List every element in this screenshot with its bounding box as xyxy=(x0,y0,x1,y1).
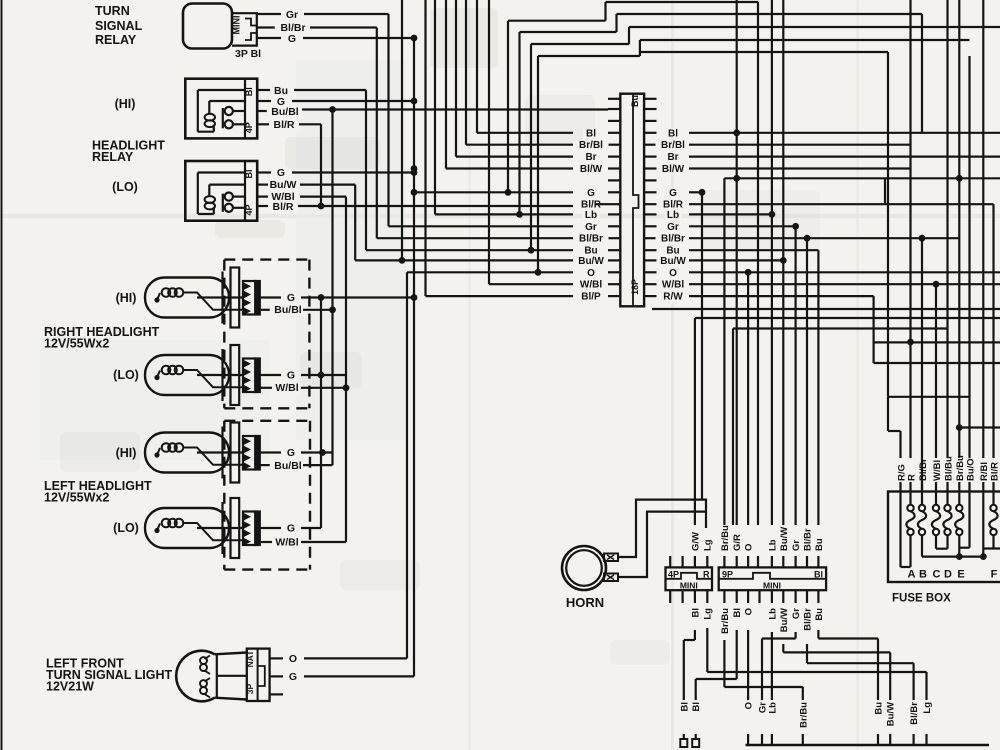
wire Bl/R from LO relay xyxy=(257,205,268,207)
vertical from top to Bu/W row xyxy=(401,0,403,260)
fuse R/Bl wire xyxy=(982,492,984,557)
wire W/Bl right row xyxy=(689,283,1000,285)
wire Br to 18P xyxy=(455,0,457,157)
18P pin row 2 xyxy=(608,108,620,110)
18P pin row 6 Br xyxy=(608,156,620,158)
jog wire 1 upper middle xyxy=(507,21,509,193)
wire Bl/Br vertical xyxy=(376,28,378,239)
svg-text:Gr: Gr xyxy=(585,222,597,233)
wire Bl/Br row to 18P xyxy=(377,237,573,239)
vertical link from jog3 xyxy=(887,52,889,397)
svg-text:SIGNAL: SIGNAL xyxy=(95,19,143,33)
wire Bu right row xyxy=(689,249,818,251)
page left edge line xyxy=(1,0,3,750)
svg-text:G: G xyxy=(277,167,285,179)
fuse xyxy=(992,492,994,506)
wire W/Bl left headlight LO xyxy=(260,541,275,543)
Bu/Bl bus headlights xyxy=(331,110,333,466)
wire G from turn signal relay xyxy=(257,37,281,39)
svg-text:R/W: R/W xyxy=(663,292,683,303)
wire G right headlight LO xyxy=(260,374,281,376)
svg-text:Bl: Bl xyxy=(244,87,254,96)
wire O 9P vertical xyxy=(747,272,749,525)
svg-text:Br: Br xyxy=(585,152,596,163)
junction Bl/W crossing xyxy=(411,165,418,172)
wire G right vertical xyxy=(701,192,703,499)
svg-text:Bl/Bu: Bl/Bu xyxy=(943,456,954,481)
wire G from HI relay xyxy=(257,100,271,102)
svg-text:Bl/Br: Bl/Br xyxy=(918,458,929,481)
wire G from turn signal light xyxy=(270,675,283,677)
svg-text:G: G xyxy=(587,188,595,199)
svg-text:Bu: Bu xyxy=(874,702,885,715)
junction G headlights row xyxy=(411,294,418,301)
wire fuse R/Bl upper xyxy=(982,0,984,458)
wire Gr row to 18P xyxy=(389,225,574,227)
right headlight HI bulb xyxy=(145,278,229,318)
svg-text:Bl: Bl xyxy=(244,169,254,178)
junction Bu/W right xyxy=(780,257,787,264)
wire G/R 9P vertical xyxy=(736,0,738,525)
vertical 733 down from h326 xyxy=(732,329,734,526)
wire link row8 to fuse Bl/R xyxy=(724,177,1000,179)
svg-text:Br/Bu: Br/Bu xyxy=(798,702,809,728)
wire Bl/Br 9P vertical xyxy=(806,238,808,525)
svg-text:RELAY: RELAY xyxy=(95,33,137,47)
O net vertical xyxy=(406,272,408,658)
wire Bu/W from LO relay xyxy=(257,184,268,186)
bottom page line xyxy=(746,744,990,747)
svg-text:Bu: Bu xyxy=(814,538,825,551)
svg-text:3P: 3P xyxy=(245,683,255,694)
wire fuse R/G upper xyxy=(899,431,901,458)
junction Bu/W vertical xyxy=(399,257,406,264)
svg-text:(LO): (LO) xyxy=(113,368,139,382)
wire Bu/Bl left headlight HI xyxy=(260,464,275,466)
wire Bl 4P to bottom xyxy=(694,630,696,640)
wire Bu/W row to 18P xyxy=(355,259,573,261)
wire h342 right xyxy=(874,341,1000,343)
svg-text:O: O xyxy=(744,702,755,709)
svg-text:4P: 4P xyxy=(244,122,254,133)
wire Bl right row xyxy=(689,132,1000,134)
junction G turn relay xyxy=(411,35,418,42)
wire h431 link to fuse R/G xyxy=(888,430,901,432)
svg-text:Bl: Bl xyxy=(690,608,701,618)
wire Br/Bu 9P vertical xyxy=(723,178,725,525)
junction G right HI xyxy=(318,294,325,301)
svg-text:Bl/Br: Bl/Br xyxy=(909,702,920,725)
svg-text:Bl/W: Bl/W xyxy=(662,164,685,175)
18P pin row 12 Gr xyxy=(608,225,620,227)
svg-text:Bl: Bl xyxy=(814,570,823,580)
svg-text:Gr: Gr xyxy=(791,540,802,551)
svg-text:Bu/W: Bu/W xyxy=(886,702,897,726)
wire G row to 18P xyxy=(414,191,573,193)
svg-text:Bl/Br: Bl/Br xyxy=(661,234,685,245)
18P pin row 7 Bl/W xyxy=(608,167,620,169)
wire fuse Br/Bu upper xyxy=(958,0,960,458)
wire Bu/W right row xyxy=(689,259,783,261)
svg-text:W/Bl: W/Bl xyxy=(275,382,298,394)
svg-text:Lb: Lb xyxy=(585,210,597,221)
svg-text:Bl/Br: Bl/Br xyxy=(803,608,814,631)
svg-text:Bl/R: Bl/R xyxy=(274,119,295,131)
wire G from LO relay xyxy=(257,171,271,173)
svg-text:9P: 9P xyxy=(722,570,733,580)
junction Lb right xyxy=(769,211,776,218)
svg-text:Bl/Br: Bl/Br xyxy=(579,234,603,245)
18P pin row 17 W/Bl xyxy=(608,283,620,285)
wire h308 right xyxy=(652,308,1000,310)
jog wire 2 upper middle xyxy=(518,32,520,214)
turn signal relay box xyxy=(183,4,232,49)
wire Bu/W vertical LO relay xyxy=(354,185,356,261)
jog wire 4 upper middle xyxy=(537,56,539,272)
wire G right row xyxy=(689,191,702,193)
wire Gr to bottom xyxy=(794,632,796,639)
right headlight LO bulb xyxy=(145,355,229,395)
svg-text:Bl: Bl xyxy=(691,702,702,712)
svg-text:Gr: Gr xyxy=(791,608,802,619)
svg-text:RELAY: RELAY xyxy=(92,150,134,164)
svg-text:W/Bl: W/Bl xyxy=(932,460,943,481)
svg-text:18P: 18P xyxy=(630,279,640,295)
svg-text:MINI: MINI xyxy=(232,16,242,35)
svg-text:Bu/W: Bu/W xyxy=(270,179,297,191)
wire Bu 9P vertical xyxy=(817,250,819,525)
svg-text:A: A xyxy=(908,569,916,581)
svg-text:Bu/W: Bu/W xyxy=(779,527,790,551)
fuse box body xyxy=(888,492,1000,583)
svg-text:G/R: G/R xyxy=(732,534,743,551)
wire W/Bl to 18P xyxy=(488,0,490,284)
svg-text:Bu/W: Bu/W xyxy=(578,256,604,267)
18P pin row 16 O xyxy=(608,271,620,273)
18P pin row 18 Bl/P xyxy=(608,295,620,297)
svg-text:MINI: MINI xyxy=(680,580,698,590)
junction Lb jog xyxy=(516,211,523,218)
junction Bl/R xyxy=(318,203,325,210)
fuse Bu/O link xyxy=(968,492,970,548)
18P pin row 15 Bu/W xyxy=(608,259,620,261)
wire W/Bl from LO relay xyxy=(257,196,268,198)
svg-text:(HI): (HI) xyxy=(116,291,137,305)
4P MINI pins xyxy=(669,556,671,567)
svg-text:MINI: MINI xyxy=(763,580,781,590)
svg-text:G/W: G/W xyxy=(690,532,701,551)
svg-text:O: O xyxy=(587,268,595,279)
wire Bu row to 18P xyxy=(366,249,573,251)
Bl/R jog up xyxy=(884,178,886,204)
wire Bu vertical HI relay xyxy=(365,90,367,250)
connector 4P MINI xyxy=(666,567,713,590)
svg-text:4P: 4P xyxy=(244,204,254,215)
scan streak artifacts xyxy=(0,214,1000,218)
junction G jog xyxy=(505,189,512,196)
wire Br/Bl right row xyxy=(689,144,911,146)
svg-text:Gr: Gr xyxy=(286,9,298,21)
junction h178 x G/R xyxy=(733,175,740,182)
svg-text:O: O xyxy=(744,608,755,615)
svg-text:O: O xyxy=(744,544,755,551)
svg-text:Lg: Lg xyxy=(703,608,714,620)
svg-text:(LO): (LO) xyxy=(113,521,139,535)
fuse xyxy=(958,492,960,506)
wire Lb 9P vertical xyxy=(771,0,773,525)
svg-text:R: R xyxy=(906,474,917,481)
G net main vertical xyxy=(413,38,415,676)
wire fuse R upper xyxy=(909,0,911,458)
terminal square xyxy=(680,739,687,747)
junction G 18P row xyxy=(411,189,418,196)
junction h178 x Br/Bu fuse xyxy=(956,175,963,182)
svg-text:TURN: TURN xyxy=(95,4,130,18)
svg-text:Bl/P: Bl/P xyxy=(581,292,601,303)
wire Bl/R from HI relay xyxy=(257,123,270,125)
jog wire 3 upper middle xyxy=(530,44,532,250)
svg-text:Br/Bl: Br/Bl xyxy=(579,140,603,151)
svg-text:G: G xyxy=(669,188,677,199)
wire h363 to edge xyxy=(874,362,1000,364)
connector 18P body xyxy=(620,94,644,307)
svg-text:Lg: Lg xyxy=(703,539,714,551)
junction Bu jog xyxy=(528,247,535,254)
svg-text:Bl/R: Bl/R xyxy=(989,462,1000,481)
svg-text:(HI): (HI) xyxy=(115,97,136,111)
wire Bu/W 9P vertical xyxy=(782,0,784,525)
wire Bu to bottom xyxy=(817,630,819,639)
wire h52 link xyxy=(640,51,888,53)
svg-text:Br: Br xyxy=(667,152,678,163)
svg-text:Bl/Br: Bl/Br xyxy=(803,528,814,551)
G bus headlights xyxy=(320,298,322,529)
svg-text:Bu/Bl: Bu/Bl xyxy=(274,304,301,316)
wire fuse Bl/Bu upper xyxy=(946,0,948,458)
wire h326 right xyxy=(733,327,948,329)
fuse C D bottom link xyxy=(935,535,937,549)
svg-text:G: G xyxy=(289,671,297,683)
horn wire 1 xyxy=(618,500,706,557)
fuse A bottom link xyxy=(899,492,901,568)
wire W/Bl right headlight LO xyxy=(260,387,275,389)
svg-text:Bl: Bl xyxy=(668,128,678,139)
turn signal 3P NAT connector xyxy=(247,649,270,701)
headlight relay LO box xyxy=(185,161,257,221)
18P pin row 9 G xyxy=(608,191,620,193)
svg-text:G: G xyxy=(287,523,295,535)
wire G/W vertical xyxy=(694,318,696,525)
terminal square xyxy=(692,739,699,747)
wire Bu/Bl right headlight HI xyxy=(260,309,275,311)
9P MINI pins xyxy=(723,556,725,567)
svg-text:3P Bl: 3P Bl xyxy=(235,48,261,60)
junction Bu/Bl at relay wire xyxy=(329,106,336,113)
svg-text:Br/Bl: Br/Bl xyxy=(661,140,685,151)
svg-text:W/Bl: W/Bl xyxy=(662,280,684,291)
horn terminal 1 xyxy=(604,554,618,562)
wire h396 link xyxy=(888,396,970,398)
wire Bl/Br right row xyxy=(689,237,959,239)
junction h342 x fuse R xyxy=(907,339,914,346)
junction Bu/Bl right HI xyxy=(329,306,336,313)
junction Bl/Br row x fuse Bl/Br xyxy=(919,235,926,242)
svg-text:Lb: Lb xyxy=(767,608,778,620)
W/Bl bus headlights xyxy=(345,197,347,542)
dashed box left headlight connectors xyxy=(223,421,225,570)
svg-text:Bu/Bl: Bu/Bl xyxy=(274,460,301,472)
svg-text:12V21W: 12V21W xyxy=(46,680,94,694)
svg-text:12V/55Wx2: 12V/55Wx2 xyxy=(44,337,109,351)
horn wire 2 xyxy=(618,512,706,577)
wire Bu/Bl from HI relay xyxy=(257,110,268,112)
wire O row to 18P xyxy=(407,271,573,273)
left headlight HI bulb xyxy=(145,433,229,473)
wire Bl/R bus HI to LO xyxy=(320,124,322,206)
svg-text:(LO): (LO) xyxy=(112,180,138,194)
wire O to bottom xyxy=(747,630,749,700)
headlight relay HI box xyxy=(185,79,257,139)
vertical 888 lower stub xyxy=(887,397,889,431)
18P pin row 4 Bl xyxy=(608,132,620,134)
junction fuse E bottom xyxy=(956,553,963,560)
svg-text:Lg: Lg xyxy=(922,702,933,714)
wire Bu from HI relay xyxy=(257,89,270,91)
wire O from turn signal light xyxy=(270,657,283,659)
wire Bl/W to 18P xyxy=(445,0,447,169)
junction Bl/Br right xyxy=(804,235,811,242)
left headlight LO bulb xyxy=(145,508,229,548)
svg-text:Bu/Bl: Bu/Bl xyxy=(271,106,298,118)
wire Lb to 18P xyxy=(434,0,436,214)
wire Gr vertical xyxy=(387,14,389,226)
18P pin row 14 Bu xyxy=(608,249,620,251)
junction G right xyxy=(699,189,706,196)
svg-text:Bl: Bl xyxy=(679,702,690,712)
svg-text:Bu/W: Bu/W xyxy=(779,608,790,632)
svg-text:(HI): (HI) xyxy=(116,446,137,460)
wire Br/Bu to bottom xyxy=(723,640,725,687)
svg-text:O: O xyxy=(669,268,677,279)
fuse E bottom wire xyxy=(958,535,960,556)
dashed box right headlight connectors xyxy=(223,260,225,409)
svg-text:4P: 4P xyxy=(668,570,679,580)
wire O right row xyxy=(689,271,1000,273)
svg-text:B: B xyxy=(919,569,927,581)
18P pin row 1 xyxy=(608,98,620,100)
wire Bl 9P to bottom xyxy=(736,630,738,679)
fuse B bottom link xyxy=(921,535,923,556)
junction W/Bl right LO xyxy=(343,384,350,391)
svg-text:R: R xyxy=(703,570,710,580)
junction G right LO xyxy=(318,372,325,379)
wire Bl/R right row xyxy=(689,203,994,205)
junction G HI relay xyxy=(411,98,418,105)
svg-text:Bu/O: Bu/O xyxy=(965,458,976,481)
junction O jog xyxy=(535,269,542,276)
junction Bl row x G/R xyxy=(733,129,740,136)
18P pin row 3 xyxy=(608,120,620,122)
18P pin row 10 Bl/R xyxy=(608,203,620,205)
junction G LO relay xyxy=(411,169,418,176)
svg-text:NAT: NAT xyxy=(245,650,255,668)
wire Bl/Br from turn signal relay xyxy=(257,26,278,28)
svg-text:FUSE BOX: FUSE BOX xyxy=(892,593,951,605)
wire Bl/Br to bottom xyxy=(806,644,808,663)
svg-text:Bu: Bu xyxy=(814,608,825,621)
svg-text:Bl/W: Bl/W xyxy=(580,164,603,175)
fuse F bottom link xyxy=(992,535,994,548)
svg-text:Br/Bu: Br/Bu xyxy=(720,525,731,551)
svg-text:W/Bl: W/Bl xyxy=(275,537,298,549)
18P pin row 11 Lb xyxy=(608,213,620,215)
svg-text:F: F xyxy=(991,569,998,581)
wire Bl/P to 18P xyxy=(424,0,426,296)
fuse xyxy=(935,492,937,506)
wire Bu/W to bottom xyxy=(782,644,784,652)
svg-text:G: G xyxy=(287,370,295,382)
horn xyxy=(562,546,606,590)
wire G left headlight HI xyxy=(260,451,281,453)
svg-text:Bl: Bl xyxy=(732,608,743,618)
wire Bl/W right row xyxy=(689,167,911,169)
turn signal relay MINI connector xyxy=(232,13,257,45)
svg-text:G: G xyxy=(287,447,295,459)
connector 9P MINI xyxy=(719,567,826,590)
horn terminal 2 xyxy=(604,574,618,582)
wire Lb right row xyxy=(689,213,772,215)
wire Bl/R into pin xyxy=(596,203,608,205)
svg-text:Bl: Bl xyxy=(586,128,596,139)
svg-text:Gr: Gr xyxy=(667,222,679,233)
svg-text:Br/Bu: Br/Bu xyxy=(720,608,731,634)
junction Gr right xyxy=(792,223,799,230)
svg-text:D: D xyxy=(944,569,952,581)
wire G left headlight LO xyxy=(260,527,281,529)
svg-text:Lb: Lb xyxy=(767,539,778,551)
svg-text:Bl/R: Bl/R xyxy=(273,201,294,213)
svg-text:Lb: Lb xyxy=(767,702,778,714)
turn signal bulb xyxy=(176,651,214,702)
fuse xyxy=(921,492,923,506)
wire h427 to edge xyxy=(959,426,1000,428)
wire R/W right row xyxy=(689,295,874,297)
junction O right xyxy=(745,269,752,276)
wire fuse W/Bl upper xyxy=(935,284,937,458)
svg-text:G: G xyxy=(288,33,296,45)
wire Lg to bottom xyxy=(706,628,708,672)
junction fuse Br/Bu xyxy=(956,424,963,431)
wire Lb to bottom xyxy=(771,632,773,700)
wire Gr from turn signal relay xyxy=(257,13,281,15)
fuse xyxy=(946,492,948,506)
wire G right headlight HI xyxy=(260,296,281,298)
wire R/W jog down xyxy=(872,296,874,363)
svg-text:W/Bl: W/Bl xyxy=(580,280,602,291)
turn signal pin stub xyxy=(270,693,283,695)
svg-text:Bu/W: Bu/W xyxy=(660,256,686,267)
wire Gr right row xyxy=(689,225,796,227)
wire Gr 9P vertical xyxy=(794,226,796,525)
junction G left HI xyxy=(319,449,326,456)
wire Br/Bl to 18P xyxy=(465,0,467,145)
18P pin row 5 Br/Bl xyxy=(608,144,620,146)
svg-text:G: G xyxy=(287,292,295,304)
wire Bl to 18P xyxy=(476,0,478,133)
18P pin row 13 Bl/Br xyxy=(608,237,620,239)
svg-text:C: C xyxy=(933,569,941,581)
wire fuse Bl/R upper xyxy=(992,204,994,458)
